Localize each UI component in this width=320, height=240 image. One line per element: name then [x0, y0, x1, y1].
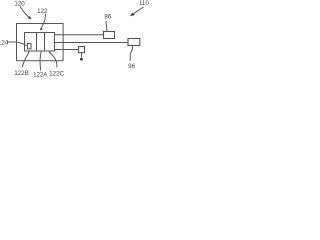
terminal dot	[80, 58, 83, 61]
svg-text:124: 124	[0, 39, 9, 46]
leader 122B	[22, 51, 29, 67]
svg-text:86: 86	[104, 13, 111, 20]
wire connector A to 86-box	[55, 34, 104, 36]
arrowhead of leader 122	[40, 27, 43, 30]
component 96 box	[128, 39, 140, 46]
wire connector B to 96-box	[55, 42, 129, 44]
leader 122C	[49, 51, 57, 67]
leader 124	[7, 42, 27, 46]
svg-text:96: 96	[128, 63, 135, 70]
svg-text:122A: 122A	[33, 72, 48, 79]
leader 110 shaft	[134, 7, 144, 14]
divider 122A/122B	[36, 33, 38, 52]
svg-text:122: 122	[37, 8, 48, 15]
terminal box	[79, 47, 85, 53]
leader 120	[20, 7, 29, 18]
arrowhead of leader 110	[130, 13, 135, 17]
svg-text:110: 110	[139, 0, 149, 7]
housing 120 outer rectangle	[17, 24, 64, 61]
arrowhead of leader 120	[28, 16, 32, 20]
block 122 inner rectangle	[25, 33, 55, 52]
svg-text:122B: 122B	[14, 70, 28, 77]
component 124 small box	[28, 44, 32, 49]
leader 86	[105, 21, 108, 32]
terminal stub	[81, 53, 83, 58]
svg-text:120: 120	[14, 1, 25, 8]
leader 122	[42, 14, 46, 28]
leader 122A	[40, 51, 41, 70]
wire connector C to terminal box	[55, 49, 79, 51]
svg-text:122C: 122C	[49, 70, 64, 77]
component 86 box	[104, 32, 115, 39]
divider 122C	[44, 33, 46, 52]
leader 96	[130, 46, 133, 61]
